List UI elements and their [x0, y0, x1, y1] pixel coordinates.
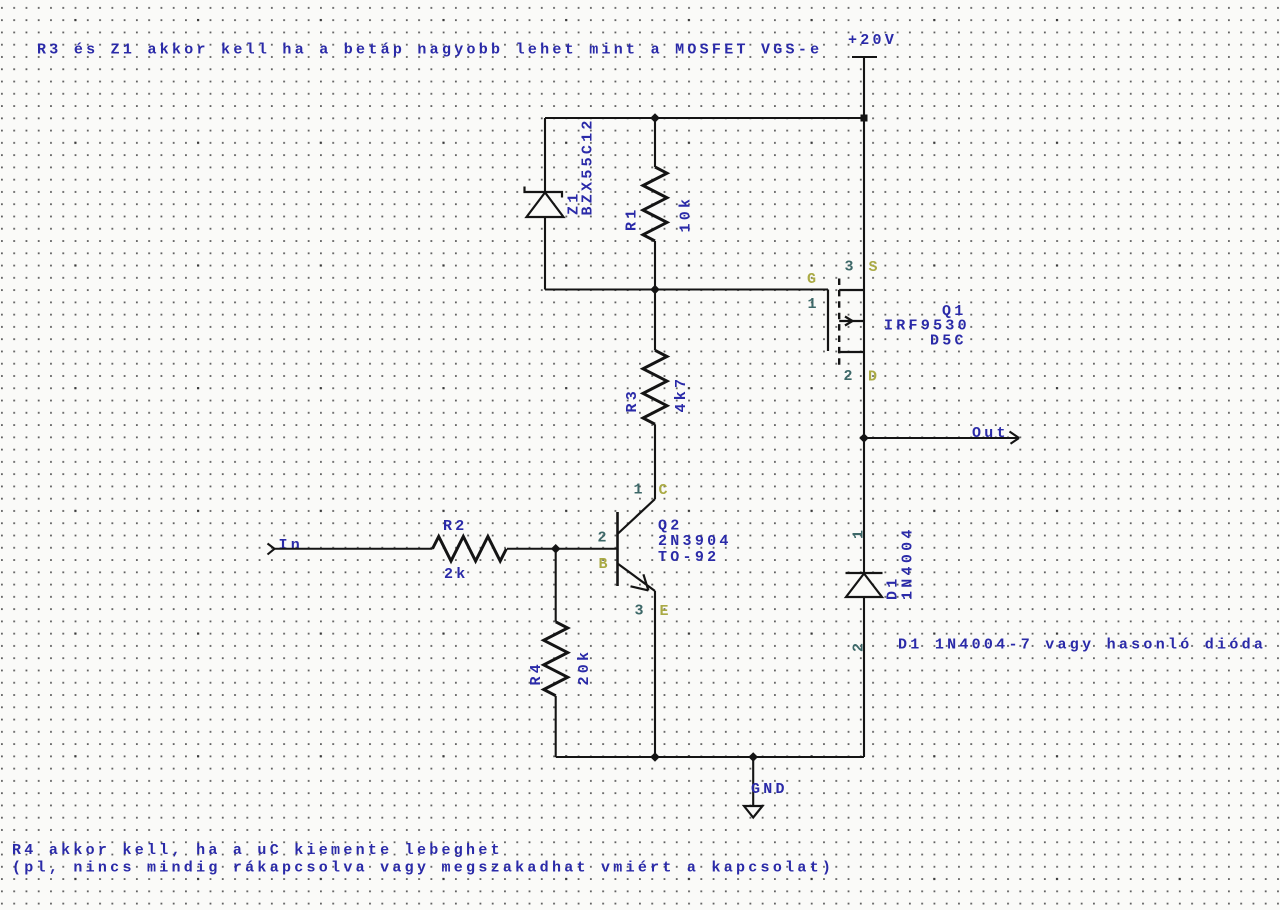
junction at (655,289.5) [650, 285, 660, 295]
junction at (753.2,757) [748, 752, 758, 762]
svg-text:R4: R4 [528, 661, 545, 686]
resistor R4 [544, 622, 568, 696]
resistor R1 [643, 167, 667, 241]
junction at (555.7,548.75) [551, 544, 561, 554]
svg-text:1: 1 [851, 527, 868, 539]
resistor R2 [433, 536, 507, 561]
svg-text:2: 2 [844, 368, 856, 385]
svg-text:G: G [807, 271, 819, 288]
svg-text:3: 3 [845, 259, 857, 276]
wire R1 bottom lead [654, 241, 656, 290]
svg-text:E: E [660, 603, 672, 620]
svg-text:20k: 20k [576, 649, 593, 686]
wire R1 top lead [654, 118, 656, 167]
svg-text:3: 3 [635, 603, 647, 620]
junction at (864.5,118) [861, 115, 868, 122]
wire gate net y=289.5 [545, 288, 828, 290]
svg-text:TO-92: TO-92 [658, 549, 719, 566]
svg-text:GND: GND [751, 781, 788, 798]
svg-text:Out: Out [972, 425, 1009, 442]
wire R4 bottom lead [555, 696, 557, 757]
net connector In [268, 544, 275, 555]
wire R3 top lead [654, 290, 656, 351]
svg-text:2k: 2k [444, 566, 469, 583]
junction at (864.5,438) [859, 433, 869, 443]
wire base junction to Q2 [556, 548, 618, 550]
svg-text:2N3904: 2N3904 [658, 533, 732, 550]
wire Z1 top lead [544, 118, 546, 192]
svg-text:D: D [868, 369, 880, 386]
wire Out net [864, 437, 1017, 439]
Out arrow head [1010, 432, 1020, 444]
junction at (655,757) [650, 752, 660, 762]
zener diode Z1 [525, 187, 564, 218]
wire R3 bottom lead (to Q2 collector) [654, 424, 656, 499]
svg-text:R2: R2 [443, 518, 468, 535]
wire bottom rail y=757 [556, 756, 864, 758]
svg-text:BZX55C12: BZX55C12 [580, 117, 597, 215]
wire R2 to base junction [507, 548, 556, 550]
svg-text:B: B [599, 556, 611, 573]
junction at (655,118) [650, 113, 660, 123]
svg-text:1: 1 [634, 482, 646, 499]
svg-text:R3 és Z1 akkor kell ha a betáp: R3 és Z1 akkor kell ha a betáp nagyobb l… [37, 42, 822, 59]
wire R4 top lead [555, 549, 557, 622]
resistor R3 [643, 350, 667, 424]
svg-text:S: S [869, 259, 881, 276]
svg-text:+20V: +20V [848, 32, 897, 49]
svg-text:R4 akkor kell, ha a uC kiement: R4 akkor kell, ha a uC kiemente lebeghet [12, 842, 503, 859]
svg-text:Q2: Q2 [658, 518, 683, 535]
transistor Q1 P-MOSFET [828, 279, 864, 366]
svg-text:4k7: 4k7 [673, 376, 690, 413]
wire Q2 emitter lead [654, 591, 656, 757]
svg-text:(pl, nincs mindig rákapcsolva: (pl, nincs mindig rákapcsolva vagy megsz… [12, 860, 834, 877]
wire right rail (source-drain) [863, 118, 865, 573]
wire Z1 bottom lead [544, 217, 546, 290]
svg-text:1N4004: 1N4004 [900, 526, 917, 600]
power symbol +20V [852, 57, 877, 118]
svg-text:D5C: D5C [930, 333, 967, 350]
ground [744, 757, 763, 818]
svg-text:In: In [279, 537, 304, 554]
svg-text:10k: 10k [678, 196, 695, 233]
transistor Q2 NPN [618, 499, 656, 591]
svg-text:2: 2 [598, 530, 610, 547]
diode D1 [846, 573, 883, 597]
svg-text:R3: R3 [624, 388, 641, 413]
wire In to R2 [274, 548, 433, 550]
svg-text:1: 1 [808, 296, 820, 313]
wire D1 bottom lead [863, 597, 865, 757]
wire top rail y=118 [545, 117, 864, 119]
svg-text:2: 2 [851, 640, 868, 652]
svg-text:C: C [659, 482, 671, 499]
svg-text:R1: R1 [624, 206, 641, 231]
svg-text:D1 1N4004-7 vagy hasonló dióda: D1 1N4004-7 vagy hasonló dióda [898, 637, 1266, 654]
